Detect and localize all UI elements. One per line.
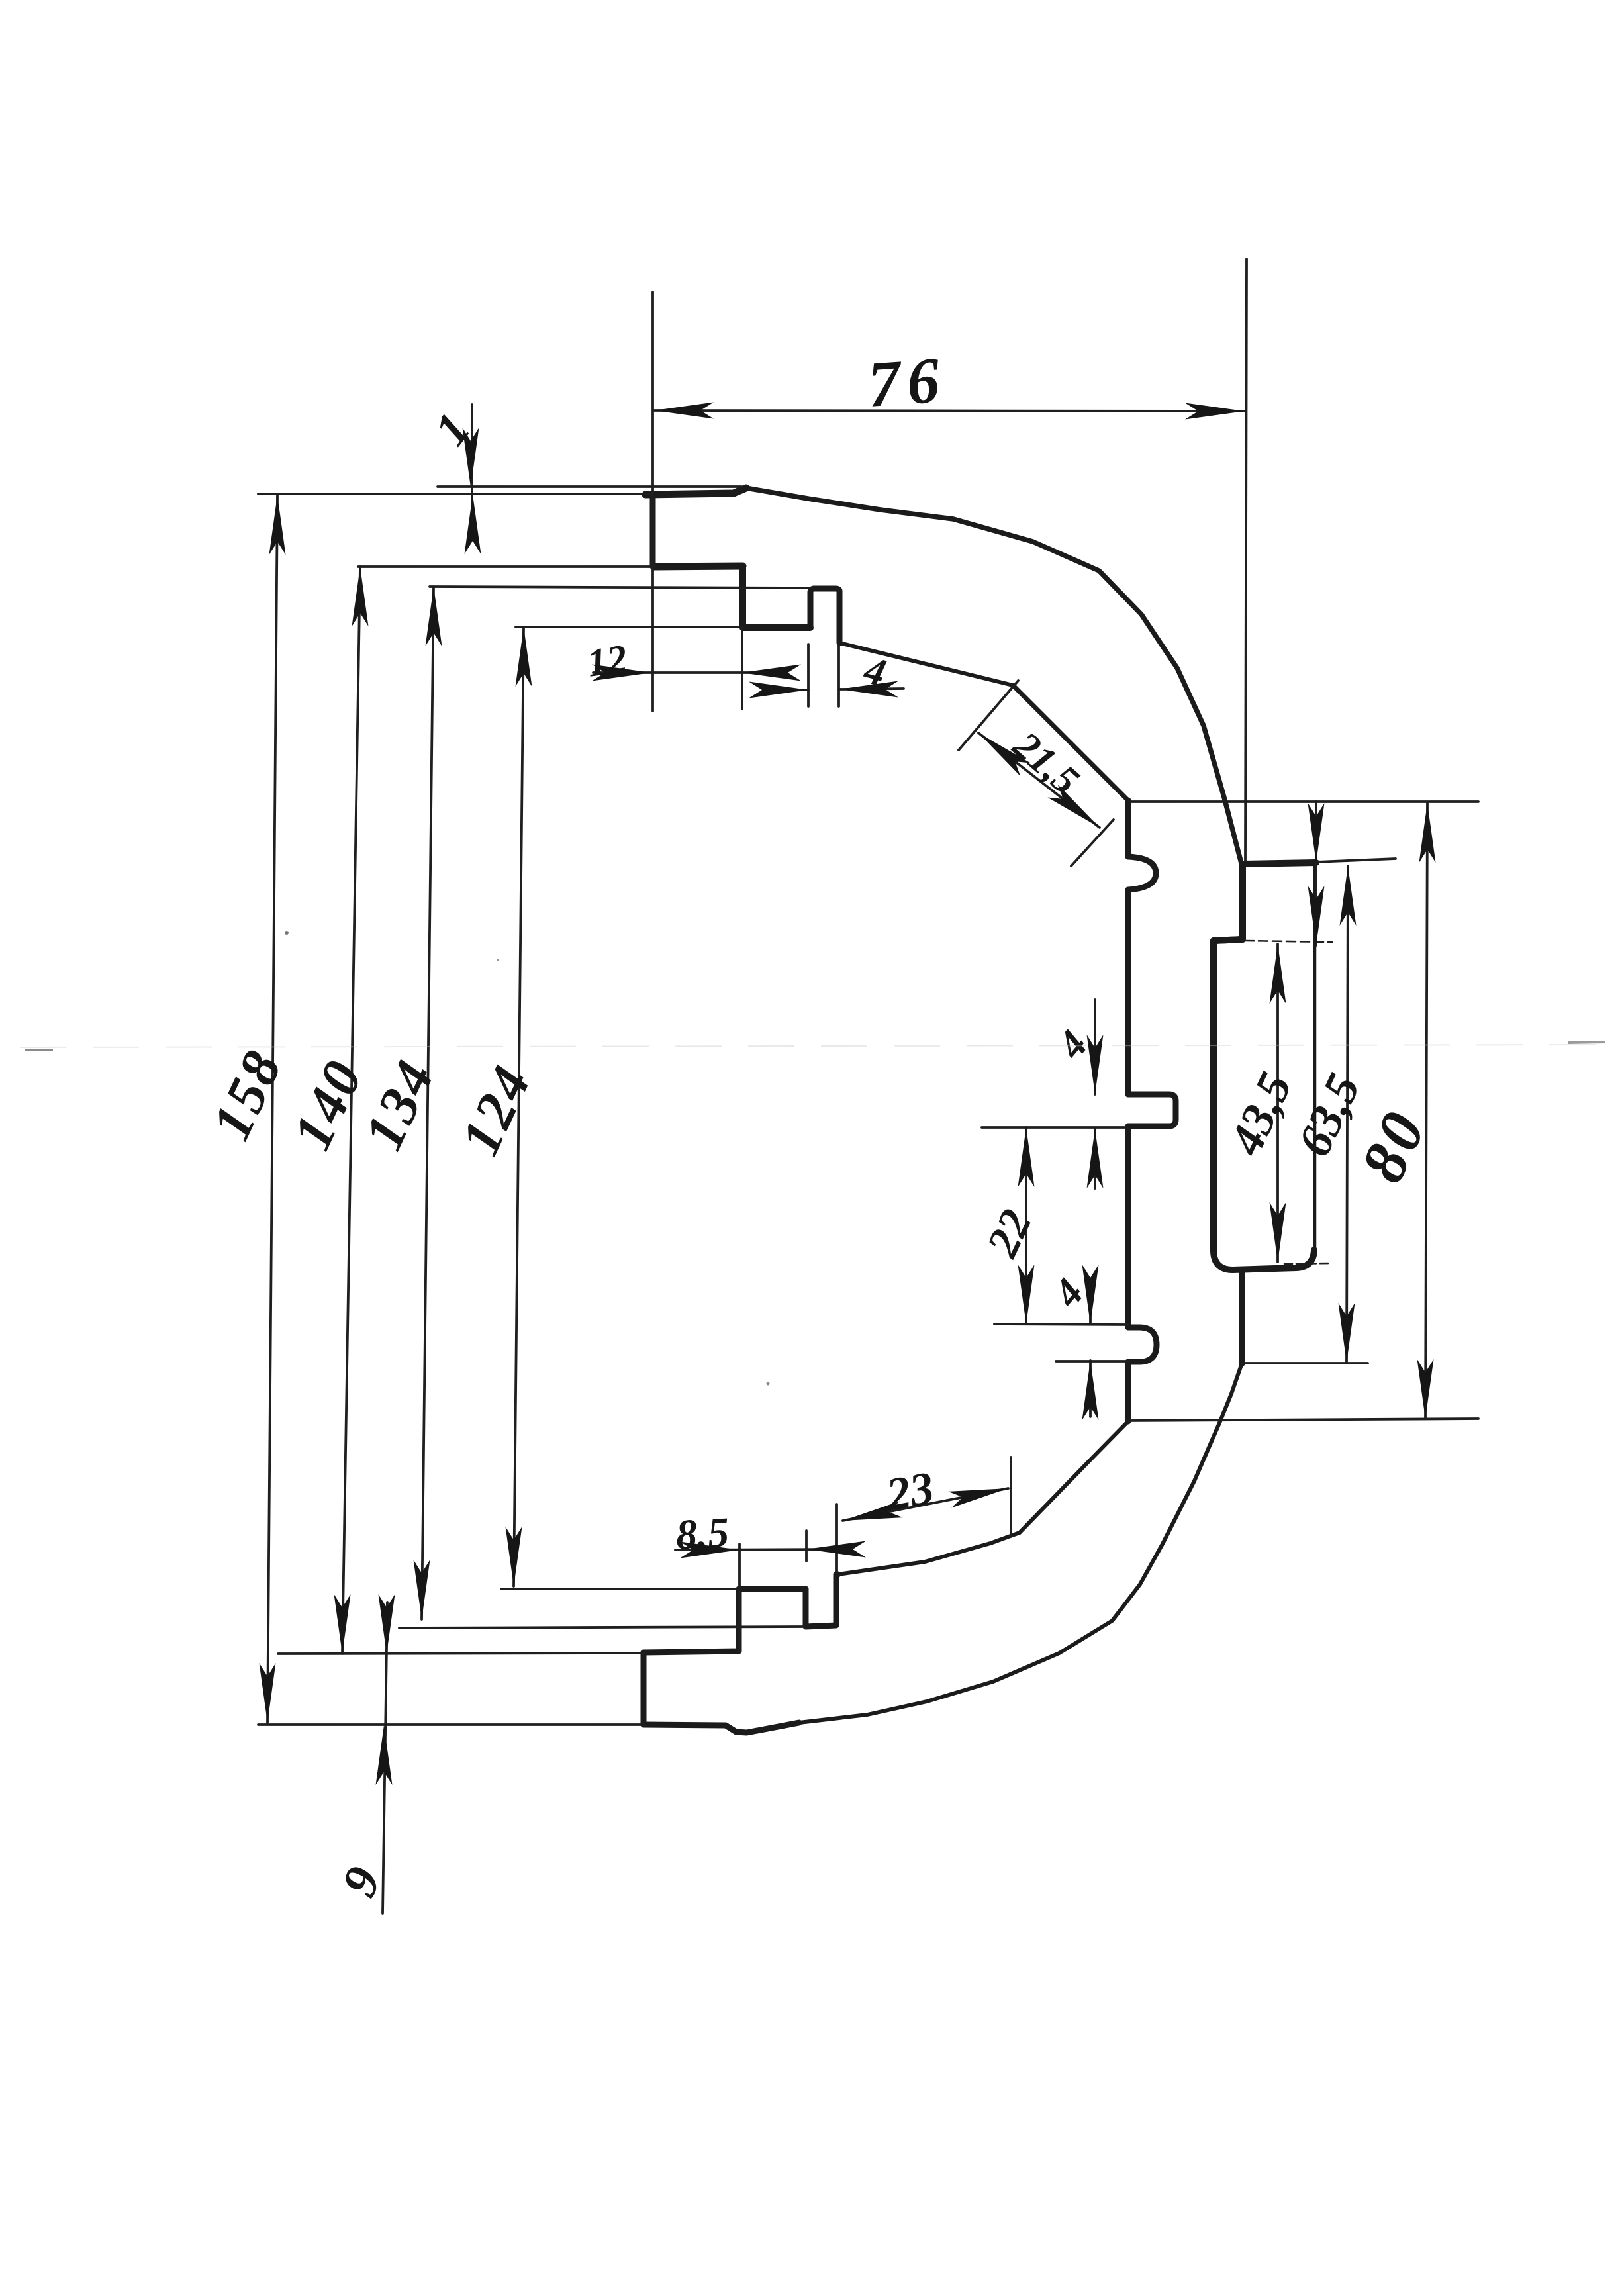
bottom cut end (641, 1652, 647, 1725)
bottom inner surface (739, 1586, 806, 1592)
dim 80 shaft (1425, 803, 1427, 1419)
ext top tab right x1267 (837, 644, 840, 706)
ext flange top dotted (1245, 941, 1332, 942)
inner top surface 3 (743, 624, 810, 631)
ext y2458 tab bottom (399, 1627, 804, 1628)
inner right wall mid (1125, 1126, 1131, 1327)
ext line y886 for 134 (430, 587, 809, 588)
arrows dim 22 (1018, 1127, 1035, 1187)
arrows dim 140 (352, 567, 369, 626)
ext y2605 bottom face (258, 1723, 643, 1726)
arrows dim 4 mid (1087, 1035, 1104, 1094)
dim 158 shaft (267, 495, 277, 1723)
ext line y735 for dim 1 (438, 485, 741, 488)
inner slant to top tab (839, 643, 1013, 685)
top tab (810, 589, 839, 643)
lower bump stadium (1128, 1327, 1157, 1362)
arrows dim 4 bottom (1082, 1265, 1099, 1324)
darker dash left edge (25, 1049, 53, 1051)
dim line 76 (654, 410, 1245, 411)
top cut end (650, 494, 656, 567)
ext y2145 for 80 (1127, 1419, 1478, 1421)
top face edge (645, 488, 746, 495)
ext 23 left (835, 1504, 838, 1573)
inner top surface 2 (654, 566, 743, 567)
ext x1218 for 8.5 (805, 1531, 808, 1561)
ext bump2 bottom y2056 (1056, 1360, 1128, 1363)
bottom face dip jog (643, 1723, 799, 1733)
arrows dim 21.5 (973, 726, 1030, 776)
dim 22 shaft (1025, 1127, 1027, 1324)
inner step vertical (739, 566, 746, 628)
arrows dim 134 (426, 587, 442, 646)
ext y1211 top right (1129, 800, 1478, 803)
dim 63.5 shaft (1347, 866, 1348, 1363)
mini dim shaft x1988 (1315, 802, 1317, 945)
ext line left vertical x986 (651, 292, 654, 711)
ext line y947 for 124 (516, 626, 743, 628)
ext tab bottom y1703 (982, 1126, 1128, 1129)
middle tab (1128, 1094, 1176, 1126)
arrows dim 23 (841, 1502, 903, 1529)
ext line y856 for 140 (358, 565, 655, 568)
dim 1 shaft (471, 405, 473, 521)
tick 21.5 upper (959, 681, 1018, 750)
paper speck 2 (767, 1382, 770, 1386)
outer top curve (746, 488, 1241, 863)
ARTIFACTS (20, 931, 1615, 1386)
ext flange bottom dotted (1284, 1263, 1329, 1264)
ext 23 right (1010, 1457, 1012, 1535)
outer bottom slant and curve (799, 1363, 1242, 1723)
chamfer face 21.5 (1013, 685, 1128, 800)
upper bump (1128, 857, 1156, 890)
dim 43.5 shaft (1276, 944, 1279, 1262)
ext top tab left x1221 (807, 644, 810, 706)
ext y2059 for 63.5 (1243, 1362, 1368, 1364)
inner bottom gentle slant (838, 1533, 1020, 1574)
DIMENSIONS (258, 259, 1478, 1913)
darker dash right edge (1568, 1042, 1605, 1043)
arrows dim 8.5 (680, 1542, 739, 1558)
faint scanner fold line (20, 1045, 1615, 1047)
svg-text:76: 76 (865, 344, 948, 421)
arrows dim 76 (654, 403, 714, 419)
flange left and bottom edge (1214, 941, 1314, 1270)
arrows dim 124 (516, 627, 532, 687)
arrows mini dim x1988 (1308, 803, 1325, 863)
svg-text:12: 12 (585, 636, 630, 685)
arrows dim 9 (379, 1594, 395, 1654)
ext y2497 step (278, 1653, 643, 1654)
ext line right vertical x1883 (1245, 259, 1247, 861)
svg-text:23: 23 (882, 1462, 937, 1521)
dim 12 shaft (593, 671, 767, 674)
inner right wall lower (1125, 1362, 1131, 1421)
inner bottom steep slant (1020, 1421, 1128, 1533)
ext bump2 top y2001 (994, 1324, 1128, 1325)
dim 124 shaft (514, 627, 524, 1586)
flange right edge (1313, 863, 1317, 1250)
ext x1117 for 8.5 (738, 1544, 741, 1652)
arrows dim 158 (269, 495, 286, 555)
dim 4 mid shafts (1094, 1000, 1096, 1188)
arrows dim 4 top (749, 682, 808, 698)
ext line y746 for dim 1 and 158 (258, 493, 653, 495)
arrows dim 80 (1419, 803, 1436, 863)
arrows dim 1 (463, 428, 479, 487)
inner right wall upper (1125, 890, 1131, 1094)
body edge below flange (1239, 1270, 1245, 1363)
bottom hanging tab (806, 1574, 838, 1627)
dim 4 bottom shafts (1089, 1284, 1092, 1417)
dim 21.5 shaft (978, 733, 1100, 828)
dim 134 shaft (422, 587, 434, 1619)
svg-text:8,5: 8,5 (675, 1508, 730, 1558)
dim 4 top shaft (773, 689, 904, 690)
right step vertical above flange (1214, 864, 1243, 941)
ext y1298 right of corner (1316, 859, 1396, 862)
arrows dim 12 (592, 665, 651, 681)
PROFILE (643, 488, 1316, 1733)
ARROWS (260, 403, 1436, 1786)
dim 8.5 shaft (675, 1549, 833, 1550)
arrows dim 43.5 (1270, 944, 1286, 1004)
dim 9 shaft (383, 1602, 387, 1913)
tick 21.5 lower (1071, 820, 1114, 866)
inner wall top (1125, 800, 1131, 857)
dim 140 shaft (342, 567, 360, 1654)
arrows dim 63.5 (1340, 866, 1357, 926)
bottom inner step low (643, 1589, 739, 1652)
ext step x1121 below (741, 629, 743, 709)
flange top edge stub (1214, 939, 1243, 941)
right step corner horizontal (1243, 863, 1316, 864)
paper speck 1 (285, 931, 289, 935)
dim 23 shaft (843, 1488, 1008, 1521)
paper speck 3 (497, 959, 499, 961)
ext y2400 bottom surface (501, 1588, 739, 1590)
